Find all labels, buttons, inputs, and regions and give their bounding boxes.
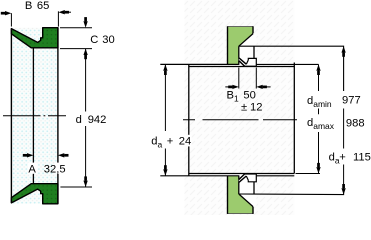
housing gland column top: [228, 26, 254, 64]
seal inner bore line: [32, 48, 34, 184]
groove left wall bottom: [238, 175, 240, 194]
gland bore line top / d_amin extension: [160, 63, 239, 65]
dimension C 30: [60, 17, 115, 48]
gland bore line bottom / d_amin extension: [160, 175, 239, 177]
svg-text:977: 977: [342, 94, 361, 106]
svg-text:C30: C30: [90, 34, 114, 46]
seal lip / insert dark green bottom: [11, 184, 58, 204]
groove white interior bottom: [239, 174, 257, 207]
groove floor line bottom / d_amax extension: [239, 189, 344, 195]
rod left edge: [188, 64, 190, 175]
svg-text:±12: ±12: [241, 102, 262, 114]
seal lip / insert dark green top: [11, 28, 58, 48]
seal outer left edge: [10, 29, 12, 203]
svg-text:988: 988: [346, 117, 365, 129]
groove chamfer bottom: [239, 194, 253, 207]
rod centerline: [183, 119, 297, 121]
rod bottom extension to dimension: [296, 173, 321, 175]
svg-text:d942: d942: [76, 114, 107, 126]
groove chamfer top: [239, 34, 253, 47]
seal centerline: [3, 115, 66, 117]
groove right wall bottom: [253, 182, 255, 194]
seal elastomer body: [11, 28, 58, 204]
groove white interior top: [239, 33, 257, 66]
dimension d_a + 24: [151, 64, 191, 175]
svg-text:B65: B65: [25, 0, 49, 12]
rod top surface: [189, 66, 294, 68]
scraper seal profile top: [239, 58, 256, 66]
rod hatch panel: [185, 0, 295, 215]
dimension d_amin 977: [307, 64, 361, 173]
dimension B 65: [1, 0, 71, 27]
housing gland column bottom: [228, 176, 254, 214]
groove floor line top / d_amax extension: [239, 46, 344, 91]
scraper seal profile bottom: [239, 174, 256, 182]
groove left wall top: [238, 46, 240, 65]
seal right edge: [57, 28, 59, 204]
svg-text:A32,5: A32,5: [28, 163, 65, 175]
dimension A 32,5: [23, 153, 69, 175]
dimension B1 50 +/-12: [225, 68, 270, 114]
rod right edge: [293, 63, 295, 174]
groove right wall top: [253, 46, 255, 58]
rod bottom surface: [189, 173, 294, 175]
dimension d 942: [60, 49, 106, 187]
dimension d_amax 988: [307, 46, 365, 194]
